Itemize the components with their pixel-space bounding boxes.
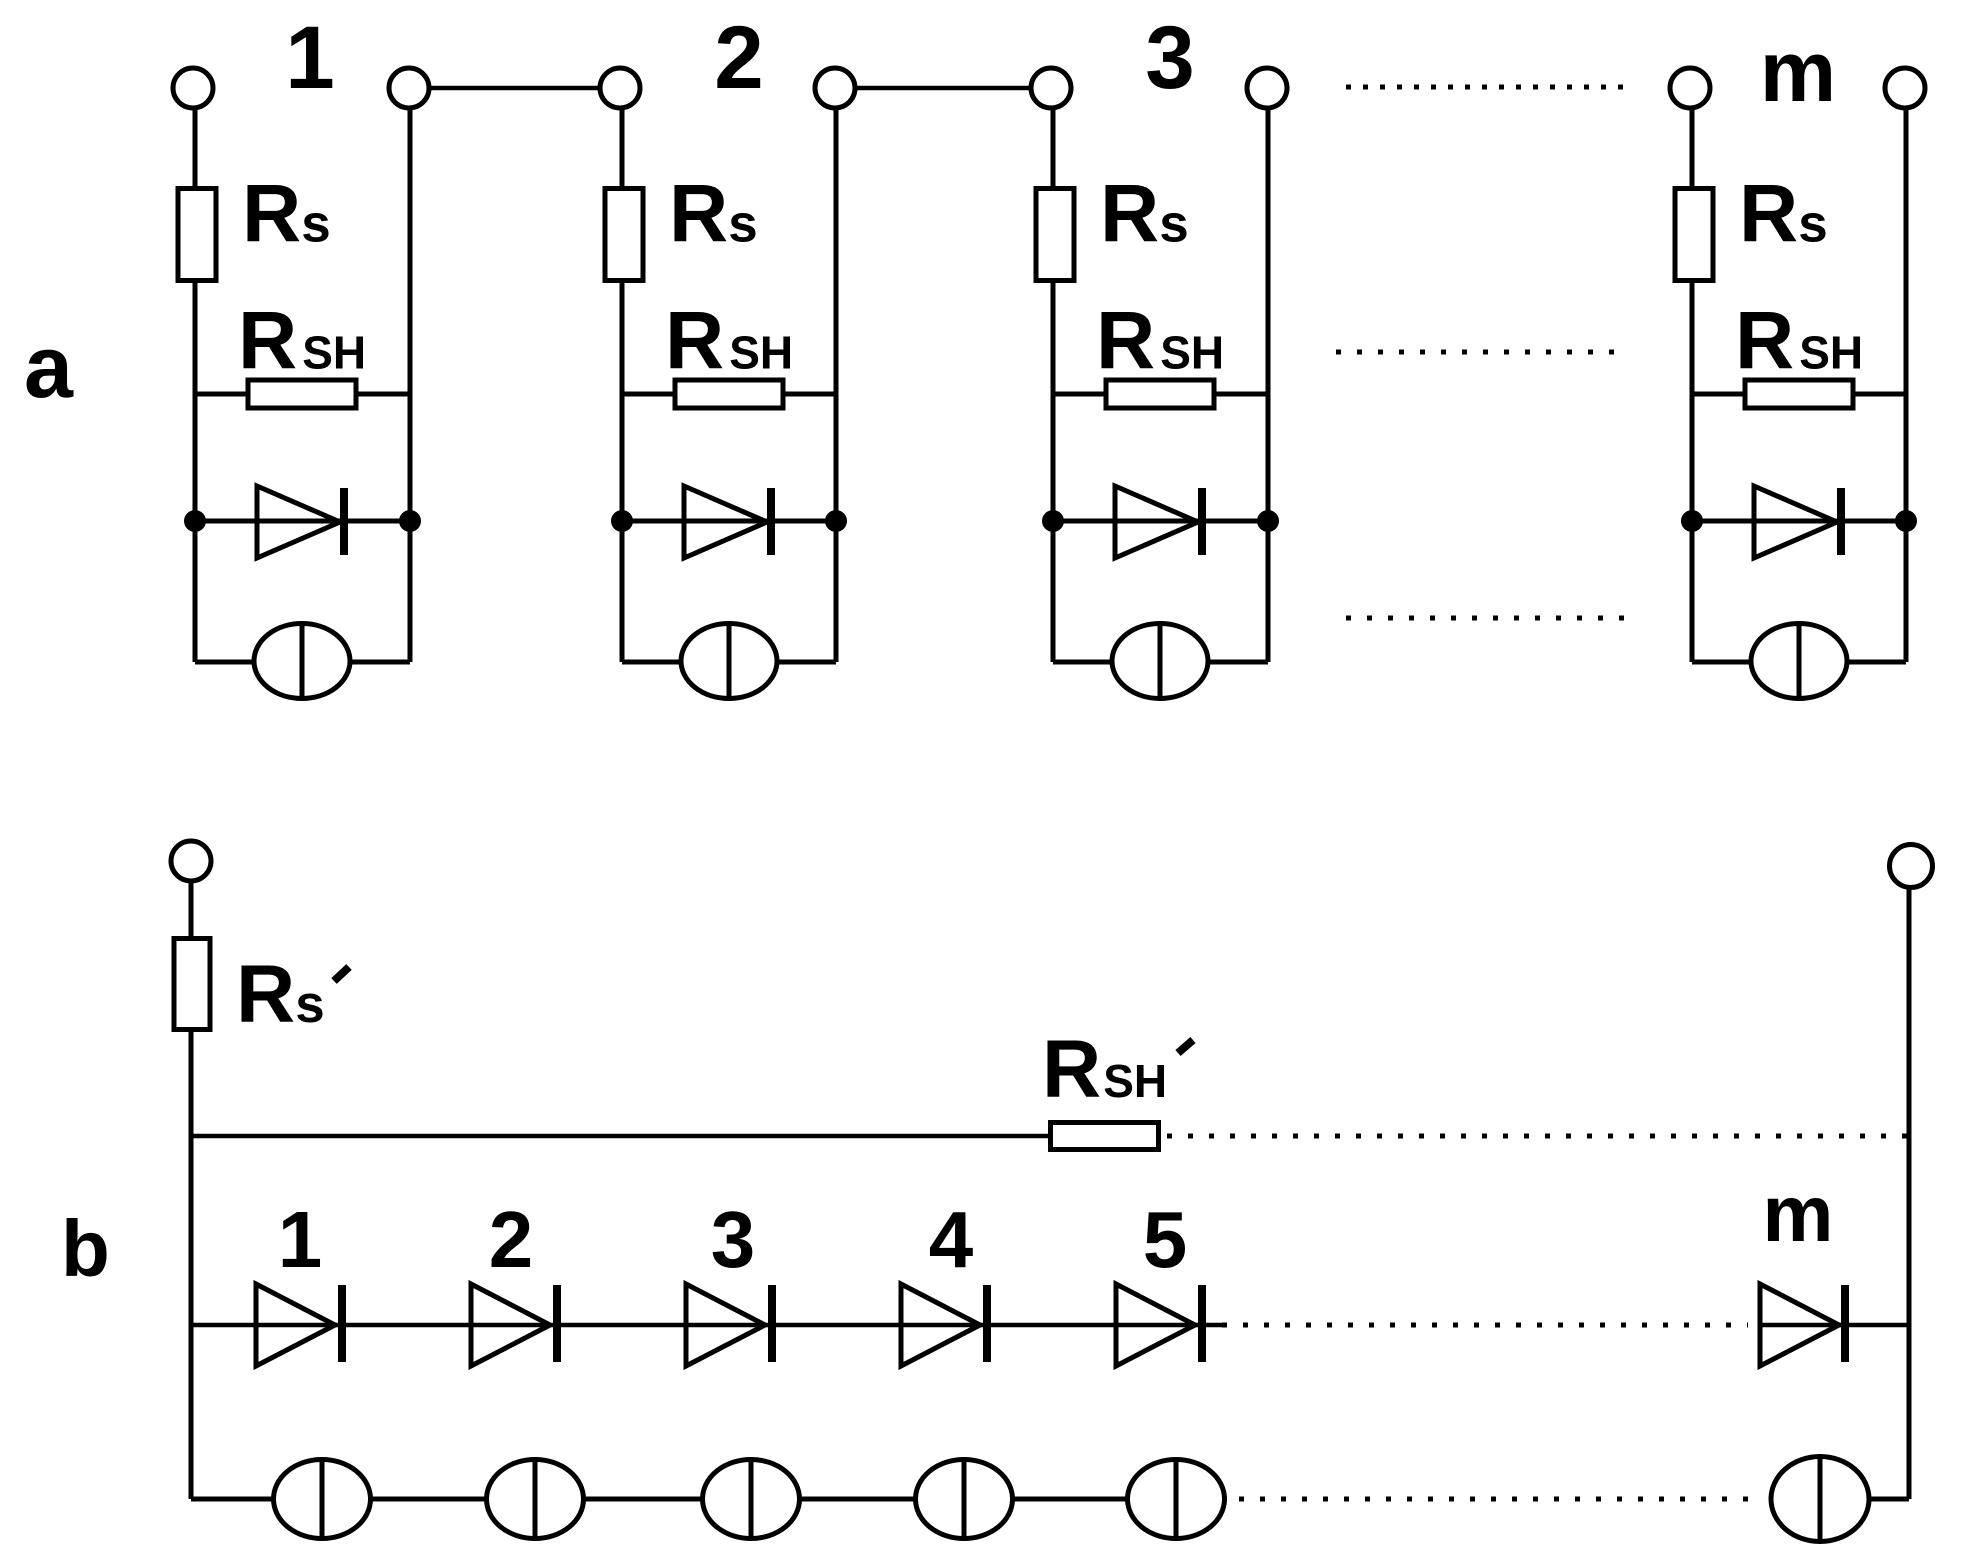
terminal b right: [1890, 845, 1933, 888]
resistor RSH cell 3: [1106, 380, 1214, 408]
node 2 left terminal: [600, 68, 640, 108]
svg-text:m: m: [1760, 24, 1836, 120]
current source m: [1771, 1456, 1869, 1542]
wire left rail cell 1: [193, 108, 198, 662]
node m left terminal: [1670, 68, 1710, 108]
wire right rail cell 3: [1266, 108, 1271, 662]
diode cell 3: [1115, 486, 1202, 558]
resistor Rs cell 2: [605, 189, 643, 281]
current source cell 3: [1112, 622, 1208, 700]
svg-text:1: 1: [285, 7, 335, 107]
wire diode branch cell 3: [1053, 519, 1268, 524]
diode cell 1: [257, 486, 344, 558]
dotted continuation RSH row: [1336, 350, 1615, 355]
wire current source string: [191, 1497, 1227, 1502]
dotted continuation top row: [1346, 85, 1625, 90]
wire diode branch cell 2: [622, 519, 836, 524]
junction dot left cell 3: [1042, 510, 1064, 532]
wire left rail cell m: [1690, 108, 1695, 662]
wire diode string: [191, 1323, 1222, 1328]
current source 1: [274, 1460, 371, 1539]
svg-text:b: b: [61, 1204, 110, 1293]
diode cell m: [1754, 486, 1841, 558]
wire bottom branch cell 3: [1053, 660, 1268, 665]
wire RSH branch cell m: [1692, 392, 1906, 397]
svg-text:4: 4: [929, 1195, 974, 1284]
svg-text:3: 3: [711, 1195, 756, 1284]
dotted current source continuation: [1239, 1497, 1762, 1502]
wire right rail cell 1: [408, 108, 413, 662]
current source cell 2: [681, 622, 777, 700]
wire RSH' branch: [191, 1134, 1052, 1139]
diode cell 2: [684, 486, 771, 558]
resistor Rs cell m: [1675, 189, 1713, 281]
junction dot right cell 1: [399, 510, 421, 532]
wire b right rail: [1907, 886, 1912, 1499]
terminal b left: [171, 841, 211, 881]
resistor RSH cell 2: [675, 380, 783, 408]
wire diode branch cell m: [1692, 519, 1906, 524]
svg-text:2: 2: [714, 7, 764, 107]
diode 2: [471, 1284, 557, 1366]
junction dot left cell 2: [611, 510, 633, 532]
wire diode branch cell 1: [195, 519, 410, 524]
wire from current source m to right rail: [1871, 1497, 1909, 1502]
resistor RSH cell 1: [248, 380, 356, 408]
wire RSH branch cell 3: [1053, 392, 1268, 397]
diode 4: [901, 1284, 987, 1366]
resistor Rs cell 3: [1036, 189, 1074, 281]
wire between node 1 and node 2: [429, 86, 602, 91]
resistor Rs': [174, 939, 210, 1030]
junction dot right cell 2: [825, 510, 847, 532]
junction dot left cell 1: [184, 510, 206, 532]
current source 5: [1128, 1460, 1225, 1539]
junction dot right cell 3: [1257, 510, 1279, 532]
node 2 right terminal: [815, 68, 855, 108]
junction dot right cell m: [1895, 510, 1917, 532]
svg-text:a: a: [24, 317, 74, 416]
node 3 right terminal: [1247, 68, 1287, 108]
wire b left rail: [189, 881, 194, 1499]
resistor Rs cell 1: [178, 189, 216, 281]
current source 3: [703, 1460, 800, 1539]
resistor RSH cell m: [1745, 380, 1853, 408]
wire right rail cell 2: [834, 108, 839, 662]
diode 5: [1116, 1284, 1202, 1366]
wire RSH branch cell 2: [622, 392, 836, 397]
wire bottom branch cell 1: [195, 660, 410, 665]
label RSH': [1042, 1024, 1193, 1115]
junction dot left cell m: [1681, 510, 1703, 532]
dotted RSH' continuation: [1167, 1134, 1909, 1139]
dotted continuation bottom row: [1346, 616, 1625, 621]
current source cell m: [1751, 622, 1847, 700]
current source 4: [916, 1460, 1013, 1539]
svg-text:m: m: [1762, 1169, 1833, 1258]
svg-text:2: 2: [489, 1195, 534, 1284]
current source 2: [487, 1460, 584, 1539]
current source cell 1: [254, 622, 350, 700]
wire between node 2 and node 3: [855, 86, 1033, 91]
diode 1: [256, 1284, 342, 1366]
dotted diode string continuation: [1222, 1323, 1748, 1328]
node m right terminal: [1885, 68, 1925, 108]
diode m: [1760, 1284, 1909, 1366]
wire right rail cell m: [1904, 108, 1909, 662]
svg-text:5: 5: [1143, 1195, 1188, 1284]
wire bottom branch cell m: [1692, 660, 1906, 665]
svg-text:1: 1: [278, 1195, 323, 1284]
label Rs': [236, 949, 349, 1040]
svg-text:3: 3: [1145, 7, 1195, 107]
node 1 right terminal: [389, 68, 429, 108]
wire left rail cell 3: [1051, 108, 1056, 662]
resistor RSH': [1051, 1123, 1159, 1150]
wire bottom branch cell 2: [622, 660, 836, 665]
wire RSH branch cell 1: [195, 392, 410, 397]
wire left rail cell 2: [620, 108, 625, 662]
diode 3: [686, 1284, 772, 1366]
node 1 left terminal: [173, 68, 213, 108]
node 3 left terminal: [1031, 68, 1071, 108]
